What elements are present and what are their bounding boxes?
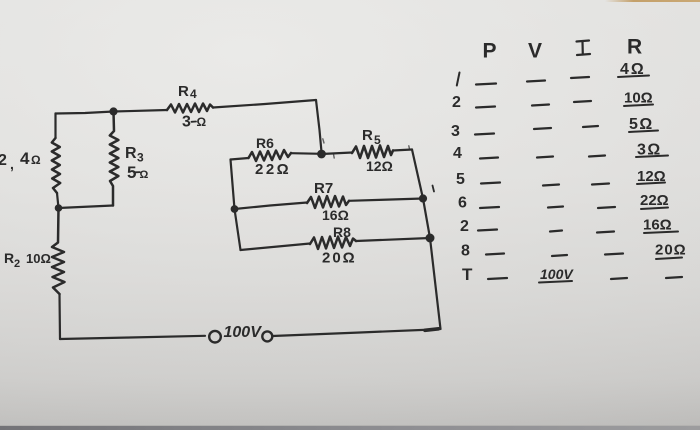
svg-text:5: 5 [456, 171, 465, 188]
dash in R4 value [192, 121, 197, 123]
wire R5 to right corner [393, 150, 412, 151]
tick mark near top of N3 wire [323, 139, 324, 143]
svg-text:12Ω: 12Ω [366, 158, 393, 174]
wire R6 to left corner [231, 158, 249, 160]
svg-text:6: 6 [458, 195, 467, 212]
wooden table sliver top right [605, 0, 700, 2]
label R1 "2, 4ohm" [0, 149, 41, 172]
row4 P dash [480, 158, 498, 159]
rowT R dash [666, 277, 682, 278]
svg-text:2: 2 [14, 258, 20, 270]
wire N4 to R7 [235, 203, 308, 210]
row 1 number [457, 73, 460, 86]
underline row8 R value [656, 258, 682, 260]
row8 I dash [605, 254, 623, 255]
svg-text:Ω: Ω [197, 115, 207, 129]
row2 I dash [574, 101, 591, 102]
resistor R2 [52, 208, 65, 294]
wire right vertical [412, 150, 441, 330]
row7 P dash [478, 230, 497, 231]
underline rowT V value [539, 281, 572, 283]
svg-text:20Ω: 20Ω [655, 242, 687, 259]
row8 V dash [552, 255, 567, 256]
svg-text:5: 5 [374, 133, 381, 147]
svg-text:20Ω: 20Ω [322, 250, 357, 267]
wire R8 corner to squiggle [241, 244, 311, 251]
svg-text:4: 4 [453, 145, 462, 162]
terminal left circle [209, 331, 221, 343]
node N6 [427, 235, 434, 242]
resistor R1 [52, 138, 60, 193]
table header I (serif bars) [577, 41, 591, 56]
resistor R8 [310, 237, 356, 250]
wire left vertical upper [54, 114, 56, 139]
row1 V dash [527, 81, 545, 82]
svg-text:R6: R6 [256, 135, 274, 151]
wire top-left horizontal [56, 112, 114, 114]
svg-text:T: T [462, 265, 473, 284]
svg-text:2: 2 [460, 218, 469, 235]
svg-text:4: 4 [190, 87, 197, 101]
row4 V dash [537, 157, 553, 158]
svg-text:V: V [528, 40, 542, 63]
row1 I dash [571, 77, 589, 78]
rowT P dash [488, 278, 507, 279]
row2 P dash [476, 107, 495, 108]
row6 I dash [598, 207, 615, 208]
wire bottom left [60, 336, 205, 339]
row5 P dash [481, 183, 500, 184]
row4 I dash [589, 156, 605, 157]
row5 I dash [592, 184, 609, 185]
wire N3 to R5 [322, 153, 353, 155]
row2 V dash [532, 105, 549, 106]
row1 P dash [476, 84, 496, 85]
svg-text:P: P [483, 40, 497, 63]
wire bottom right [273, 330, 434, 337]
tick mark near node N5 [433, 186, 435, 192]
resistor R7 [307, 196, 349, 208]
row5 V dash [543, 185, 559, 186]
svg-text:R: R [178, 83, 189, 100]
wire R8 to node N6 [356, 238, 430, 241]
node N4 [232, 206, 238, 212]
wire N4 down to R8 corner [235, 209, 241, 250]
svg-text:8: 8 [461, 243, 470, 260]
row3 P dash [475, 134, 494, 135]
svg-text:3: 3 [451, 123, 460, 140]
svg-text:22Ω: 22Ω [640, 192, 669, 209]
resistor R4 [167, 104, 213, 113]
svg-text:2: 2 [0, 152, 7, 169]
underline row4 R value [636, 156, 668, 158]
svg-text:100V: 100V [224, 324, 263, 341]
resistor R5 [352, 146, 393, 159]
svg-text:R7: R7 [314, 180, 333, 197]
dash in R3 value [135, 171, 140, 173]
svg-text:16Ω: 16Ω [322, 207, 349, 223]
row7 V dash [550, 231, 562, 232]
svg-text:3: 3 [182, 114, 191, 131]
wire N3 to R6 [291, 152, 322, 155]
row3 I dash [583, 126, 598, 127]
svg-text:R: R [627, 36, 642, 59]
rowT I dash [611, 278, 627, 279]
node N2 [56, 205, 61, 210]
svg-text:4: 4 [20, 149, 30, 168]
svg-text:R: R [362, 127, 373, 144]
row7 I dash [597, 232, 614, 233]
svg-text:R: R [125, 145, 137, 162]
row8 P dash [486, 254, 504, 255]
wire corner down to node N3 [316, 100, 322, 152]
bottom table edge [0, 425, 700, 430]
wire N1 to R4 [114, 110, 168, 112]
resistor R6 [249, 150, 292, 161]
svg-text:10Ω: 10Ω [26, 251, 51, 266]
wire R4 to top-right corner [213, 100, 316, 108]
tick mark above R5 right corner [408, 146, 411, 150]
wire left-box bottom [59, 206, 114, 209]
svg-text:Ω: Ω [140, 169, 149, 181]
node N3 [318, 151, 325, 158]
svg-text:2: 2 [452, 94, 461, 111]
underline row5 R value [637, 183, 665, 185]
wire end blob at bottom-right corner [425, 329, 439, 331]
row3 V dash [534, 128, 551, 129]
svg-text:R: R [4, 250, 14, 266]
node N1 [111, 109, 117, 115]
svg-text:5: 5 [127, 163, 136, 182]
svg-text:,: , [10, 156, 14, 172]
svg-text:3: 3 [137, 151, 144, 165]
row6 P dash [480, 207, 499, 208]
resistor R3 [110, 112, 119, 206]
svg-text:16Ω: 16Ω [643, 217, 672, 234]
underline row2 R value [624, 105, 653, 107]
wire R7 to node N5 [349, 199, 423, 201]
row6 V dash [548, 207, 563, 208]
underline row6 R value [641, 208, 668, 210]
tick mark below wire left of R5 [333, 155, 336, 158]
svg-text:100V: 100V [540, 266, 574, 282]
underline row1 R value [618, 76, 649, 78]
node N5 [420, 196, 426, 202]
terminal right circle [262, 331, 272, 341]
wire R2 to bottom-left corner [58, 294, 61, 339]
svg-text:Ω: Ω [31, 153, 41, 167]
wire middle-left vertical [231, 160, 235, 210]
svg-text:R8: R8 [333, 224, 351, 240]
underline row7 R value [644, 232, 678, 234]
wire R1 to node N2 [57, 193, 59, 208]
svg-text:22Ω: 22Ω [255, 161, 291, 178]
underline row3 R value [629, 131, 658, 133]
